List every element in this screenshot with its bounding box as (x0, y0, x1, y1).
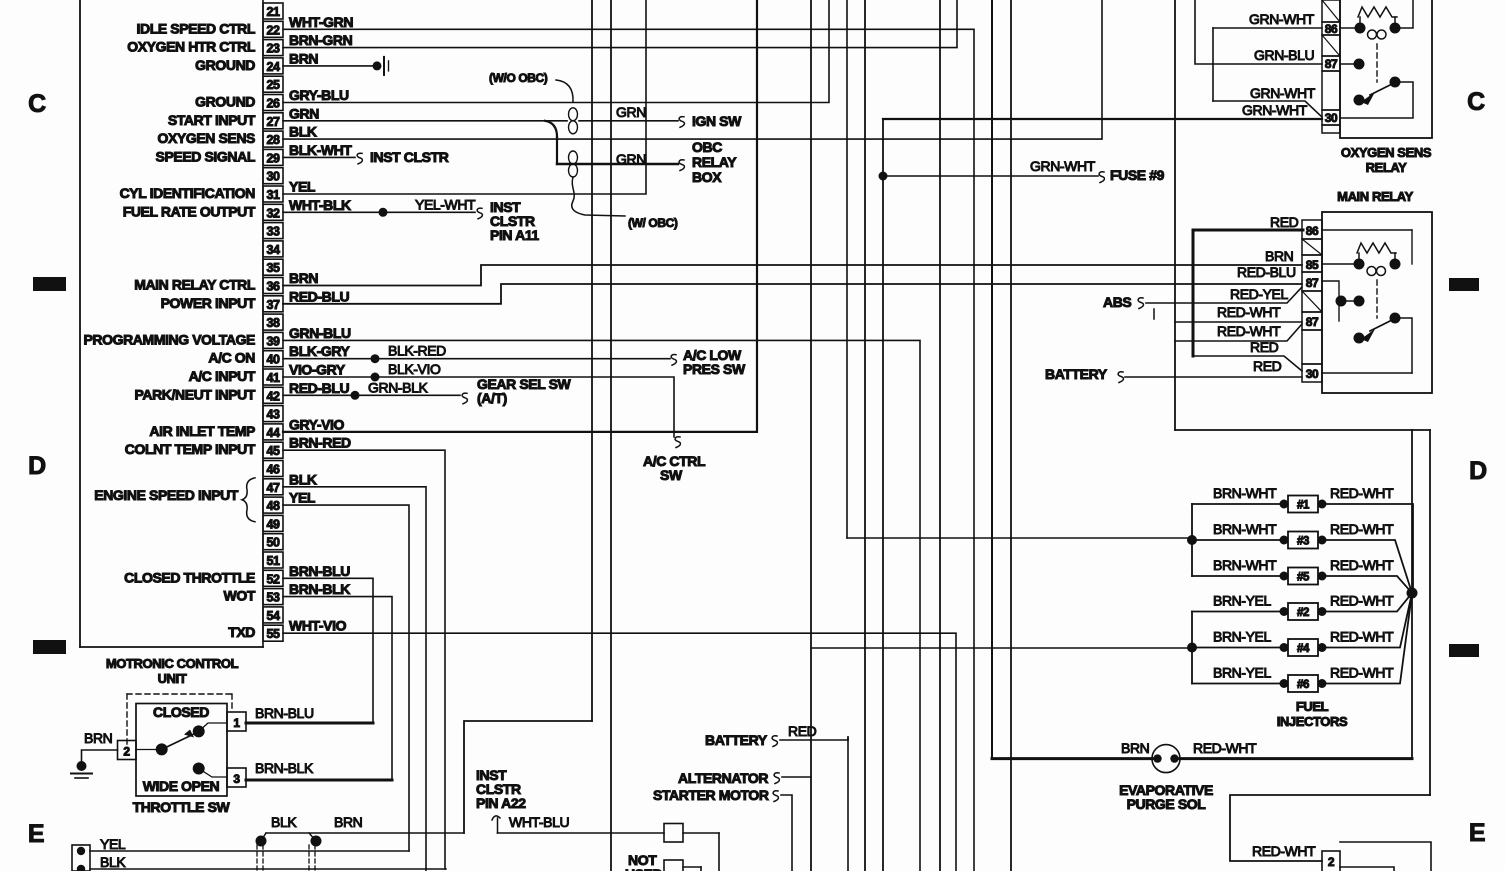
svg-text:GRY-BLU: GRY-BLU (289, 87, 349, 103)
svg-text:YEL: YEL (289, 490, 316, 506)
svg-text:A/C ON: A/C ON (208, 350, 255, 366)
svg-text:35: 35 (266, 261, 280, 275)
svg-text:RED-YEL: RED-YEL (1230, 286, 1288, 302)
svg-text:YEL: YEL (100, 836, 126, 852)
svg-text:VIO-GRY: VIO-GRY (289, 362, 346, 378)
svg-text:BLK: BLK (289, 124, 317, 140)
svg-text:30: 30 (1306, 367, 1319, 381)
svg-text:BRN-BLK: BRN-BLK (289, 581, 350, 597)
svg-text:RED-WHT: RED-WHT (1217, 323, 1281, 339)
svg-text:26: 26 (266, 97, 280, 111)
svg-text:CLOSED: CLOSED (153, 704, 209, 720)
svg-text:OBC: OBC (692, 139, 722, 155)
svg-text:32: 32 (266, 206, 280, 220)
svg-text:BRN: BRN (289, 50, 318, 66)
svg-text:C: C (1467, 88, 1485, 116)
svg-text:1: 1 (233, 716, 240, 730)
svg-text:27: 27 (266, 115, 280, 129)
svg-text:E: E (1469, 819, 1485, 847)
svg-text:34: 34 (266, 243, 280, 257)
svg-text:BRN-BLU: BRN-BLU (255, 705, 314, 721)
svg-text:53: 53 (266, 591, 280, 605)
svg-text:BLK: BLK (289, 471, 317, 487)
svg-text:86: 86 (1306, 224, 1319, 238)
svg-text:RED: RED (788, 723, 817, 739)
svg-text:30: 30 (266, 170, 280, 184)
svg-text:GRN: GRN (616, 151, 646, 167)
svg-text:WHT-GRN: WHT-GRN (289, 14, 353, 30)
svg-text:SPEED SIGNAL: SPEED SIGNAL (156, 148, 256, 164)
svg-text:BATTERY: BATTERY (705, 732, 768, 748)
svg-text:48: 48 (266, 499, 280, 513)
svg-text:RED-WHT: RED-WHT (1252, 843, 1316, 859)
svg-text:E: E (28, 820, 44, 848)
svg-text:21: 21 (266, 5, 280, 19)
svg-text:49: 49 (266, 517, 280, 531)
svg-text:BLK-VIO: BLK-VIO (388, 361, 441, 377)
svg-text:30: 30 (1325, 111, 1338, 125)
svg-text:BRN-RED: BRN-RED (289, 435, 351, 451)
svg-text:IGN SW: IGN SW (692, 113, 742, 129)
svg-text:BRN-YEL: BRN-YEL (1213, 665, 1271, 681)
svg-text:#4: #4 (1297, 643, 1310, 655)
svg-text:41: 41 (266, 371, 280, 385)
svg-text:BRN: BRN (1265, 248, 1293, 264)
svg-text:GROUND: GROUND (195, 94, 255, 110)
svg-text:BATTERY: BATTERY (1045, 366, 1108, 382)
svg-text:GRN-WHT: GRN-WHT (1249, 11, 1315, 27)
svg-text:THROTTLE SW: THROTTLE SW (133, 799, 231, 815)
svg-text:37: 37 (266, 298, 280, 312)
svg-text:PARK/NEUT INPUT: PARK/NEUT INPUT (134, 386, 255, 402)
svg-text:START INPUT: START INPUT (168, 112, 256, 128)
svg-text:44: 44 (266, 426, 280, 440)
svg-text:BLK: BLK (100, 854, 126, 870)
svg-text:#5: #5 (1297, 572, 1310, 584)
svg-text:BRN-BLU: BRN-BLU (289, 563, 350, 579)
svg-text:47: 47 (266, 481, 280, 495)
svg-text:USED: USED (625, 866, 663, 871)
svg-text:PRES SW: PRES SW (683, 361, 746, 377)
svg-text:ABS: ABS (1103, 294, 1131, 310)
svg-text:45: 45 (266, 444, 280, 458)
svg-text:BRN-WHT: BRN-WHT (1213, 557, 1277, 573)
svg-text:87: 87 (1306, 315, 1319, 329)
svg-text:RELAY: RELAY (1366, 160, 1408, 175)
svg-text:WOT: WOT (224, 588, 256, 604)
svg-text:GROUND: GROUND (195, 57, 255, 73)
svg-text:87: 87 (1325, 57, 1338, 71)
svg-text:GRN-WHT: GRN-WHT (1250, 85, 1316, 101)
svg-text:#1: #1 (1297, 500, 1310, 512)
svg-text:42: 42 (266, 389, 280, 403)
svg-text:24: 24 (266, 60, 280, 74)
svg-text:CLOSED THROTTLE: CLOSED THROTTLE (124, 569, 255, 585)
svg-text:85: 85 (1306, 258, 1319, 272)
svg-text:AIR INLET TEMP: AIR INLET TEMP (149, 423, 255, 439)
svg-text:RED-BLU: RED-BLU (289, 288, 349, 304)
svg-text:(W/O OBC): (W/O OBC) (489, 71, 548, 85)
svg-text:BRN: BRN (289, 270, 318, 286)
svg-text:22: 22 (266, 23, 280, 37)
svg-text:INJECTORS: INJECTORS (1277, 714, 1348, 729)
svg-text:BRN: BRN (84, 730, 112, 746)
svg-text:YEL-WHT: YEL-WHT (415, 196, 476, 212)
svg-text:PURGE SOL: PURGE SOL (1127, 796, 1207, 812)
svg-text:POWER INPUT: POWER INPUT (161, 295, 256, 311)
svg-text:IDLE SPEED CTRL: IDLE SPEED CTRL (137, 20, 256, 36)
svg-text:WHT-VIO: WHT-VIO (289, 618, 347, 634)
svg-text:RED-WHT: RED-WHT (1217, 304, 1281, 320)
svg-text:PIN A22: PIN A22 (476, 795, 526, 811)
svg-text:GRN: GRN (616, 104, 646, 120)
svg-text:OXYGEN HTR CTRL: OXYGEN HTR CTRL (127, 39, 256, 55)
svg-text:D: D (1469, 457, 1487, 485)
svg-text:RED-BLU: RED-BLU (289, 380, 349, 396)
svg-text:C: C (28, 90, 46, 118)
svg-text:PIN A11: PIN A11 (490, 227, 539, 243)
svg-text:25: 25 (266, 78, 280, 92)
svg-text:55: 55 (266, 627, 280, 641)
svg-text:RED-WHT: RED-WHT (1330, 557, 1394, 573)
svg-text:86: 86 (1325, 22, 1338, 36)
svg-text:#6: #6 (1297, 679, 1309, 691)
svg-text:FUSE #9: FUSE #9 (1110, 167, 1165, 183)
svg-text:RED-WHT: RED-WHT (1330, 593, 1394, 609)
svg-text:D: D (28, 452, 46, 480)
svg-text:3: 3 (233, 772, 240, 786)
svg-text:23: 23 (266, 42, 280, 56)
svg-text:2: 2 (123, 745, 130, 759)
svg-text:INST CLSTR: INST CLSTR (370, 149, 449, 165)
svg-text:WHT-BLK: WHT-BLK (289, 197, 351, 213)
svg-text:BRN-WHT: BRN-WHT (1213, 485, 1277, 501)
svg-text:RELAY: RELAY (692, 154, 737, 170)
svg-text:OXYGEN SENS: OXYGEN SENS (1341, 145, 1432, 160)
svg-text:39: 39 (266, 334, 280, 348)
svg-text:PROGRAMMING VOLTAGE: PROGRAMMING VOLTAGE (83, 331, 255, 347)
svg-text:YEL: YEL (289, 179, 316, 195)
svg-text:40: 40 (266, 353, 280, 367)
svg-text:RED-WHT: RED-WHT (1330, 521, 1394, 537)
svg-text:46: 46 (266, 463, 280, 477)
svg-text:(A/T): (A/T) (477, 390, 507, 406)
svg-text:51: 51 (266, 554, 280, 568)
svg-text:OXYGEN SENS: OXYGEN SENS (157, 130, 255, 146)
svg-text:MAIN RELAY CTRL: MAIN RELAY CTRL (134, 277, 256, 293)
svg-text:GRN: GRN (289, 105, 319, 121)
svg-text:BLK-GRY: BLK-GRY (289, 343, 351, 359)
svg-text:FUEL: FUEL (1296, 699, 1329, 714)
svg-text:SW: SW (660, 467, 683, 483)
svg-text:WIDE OPEN: WIDE OPEN (143, 778, 220, 794)
svg-text:ALTERNATOR: ALTERNATOR (678, 770, 768, 786)
svg-text:RED-WHT: RED-WHT (1330, 629, 1394, 645)
svg-text:TXD: TXD (228, 624, 255, 640)
svg-text:GRY-VIO: GRY-VIO (289, 416, 345, 432)
svg-text:33: 33 (266, 225, 280, 239)
svg-text:FUEL RATE OUTPUT: FUEL RATE OUTPUT (123, 203, 256, 219)
svg-text:GRN-BLK: GRN-BLK (368, 379, 428, 395)
svg-text:BRN-GRN: BRN-GRN (289, 32, 353, 48)
svg-text:BRN-BLK: BRN-BLK (255, 760, 314, 776)
svg-text:50: 50 (266, 536, 280, 550)
svg-text:BRN-WHT: BRN-WHT (1213, 521, 1277, 537)
svg-text:BLK: BLK (271, 814, 297, 830)
svg-text:A/C INPUT: A/C INPUT (189, 368, 256, 384)
svg-text:ENGINE SPEED INPUT: ENGINE SPEED INPUT (94, 487, 239, 503)
svg-text:BOX: BOX (692, 169, 722, 185)
svg-text:#2: #2 (1297, 607, 1309, 619)
svg-text:52: 52 (266, 572, 280, 586)
svg-text:MOTRONIC CONTROL: MOTRONIC CONTROL (106, 656, 239, 671)
svg-text:2: 2 (1328, 855, 1335, 869)
svg-text:RED-WHT: RED-WHT (1330, 665, 1394, 681)
svg-text:31: 31 (266, 188, 280, 202)
svg-text:BRN: BRN (1121, 740, 1149, 756)
svg-text:28: 28 (266, 133, 280, 147)
svg-text:(W/ OBC): (W/ OBC) (628, 216, 678, 230)
svg-text:RED-WHT: RED-WHT (1193, 740, 1257, 756)
svg-text:BRN-YEL: BRN-YEL (1213, 593, 1271, 609)
svg-text:RED: RED (1270, 214, 1299, 230)
svg-text:36: 36 (266, 280, 280, 294)
svg-text:UNIT: UNIT (158, 671, 187, 686)
svg-text:29: 29 (266, 151, 280, 165)
svg-text:GRN-BLU: GRN-BLU (1254, 47, 1314, 63)
svg-text:BLK-RED: BLK-RED (388, 343, 446, 359)
svg-text:RED: RED (1253, 358, 1282, 374)
svg-text:GRN-WHT: GRN-WHT (1030, 158, 1096, 174)
svg-text:CYL IDENTIFICATION: CYL IDENTIFICATION (120, 185, 256, 201)
svg-text:#3: #3 (1297, 536, 1309, 548)
svg-text:RED-BLU: RED-BLU (1237, 264, 1296, 280)
svg-text:WHT-BLU: WHT-BLU (509, 814, 569, 830)
svg-text:BRN: BRN (334, 814, 362, 830)
svg-text:BLK-WHT: BLK-WHT (289, 142, 352, 158)
svg-text:BRN-YEL: BRN-YEL (1213, 629, 1271, 645)
svg-text:GRN-BLU: GRN-BLU (289, 325, 351, 341)
svg-text:STARTER MOTOR: STARTER MOTOR (653, 787, 769, 803)
svg-text:MAIN RELAY: MAIN RELAY (1337, 189, 1413, 204)
svg-text:43: 43 (266, 408, 280, 422)
svg-text:87: 87 (1306, 276, 1319, 290)
svg-text:RED-WHT: RED-WHT (1330, 485, 1394, 501)
svg-text:COLNT TEMP INPUT: COLNT TEMP INPUT (125, 441, 256, 457)
svg-text:38: 38 (266, 316, 280, 330)
svg-text:GRN-WHT: GRN-WHT (1242, 102, 1308, 118)
svg-text:54: 54 (266, 609, 280, 623)
